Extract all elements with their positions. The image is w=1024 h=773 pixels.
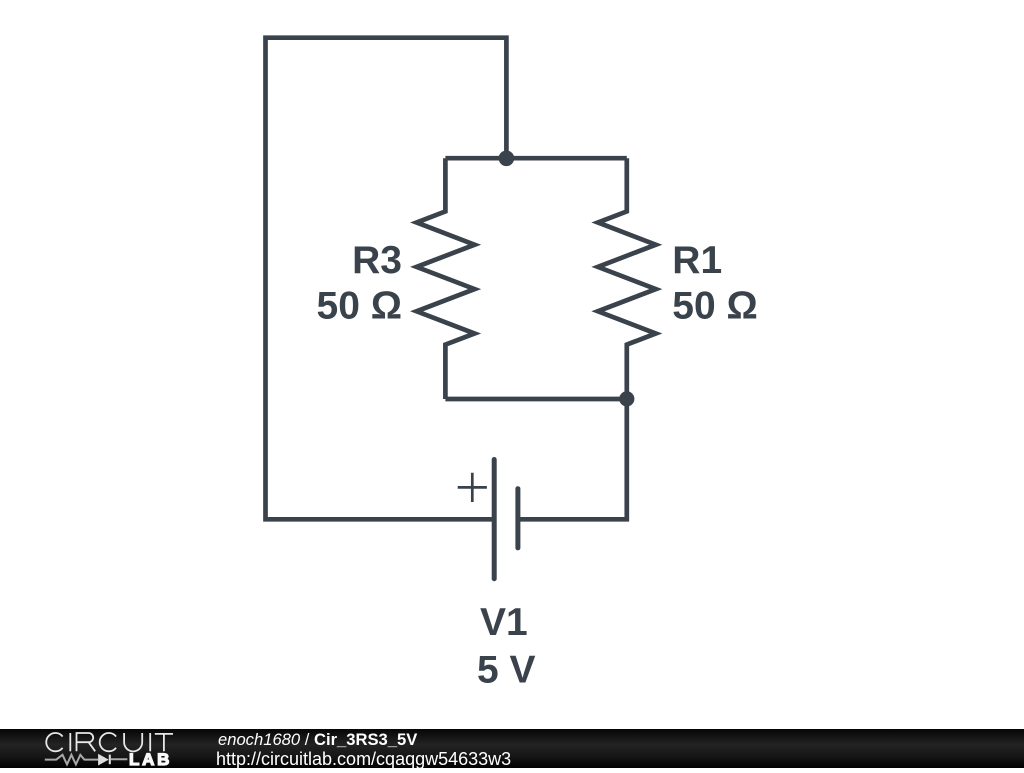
battery plus sign xyxy=(458,473,487,502)
svg-text:R3: R3 xyxy=(352,239,402,282)
svg-text:R1: R1 xyxy=(672,239,722,282)
logo letter U xyxy=(124,733,142,751)
node B (bottom junction) xyxy=(619,391,634,406)
svg-text:V1: V1 xyxy=(480,601,528,644)
logo letter C xyxy=(100,733,116,751)
svg-text:LAB: LAB xyxy=(129,750,172,768)
svg-text:50 Ω: 50 Ω xyxy=(317,284,402,327)
footer line 1: user / circuit name xyxy=(218,730,417,750)
logo letter C xyxy=(46,733,62,751)
node A (top junction) xyxy=(499,151,515,167)
wire bottom rung of parallel resistors xyxy=(445,397,626,402)
CircuitLab logo xyxy=(0,726,200,768)
logo letter I xyxy=(149,733,151,751)
wire right branch: bottom node to battery xyxy=(518,399,627,519)
footer line 2: url xyxy=(216,749,511,770)
resistor R1 xyxy=(598,158,656,399)
battery V1 negative plate xyxy=(515,489,520,548)
logo letter T xyxy=(155,734,173,751)
logo diode triangle xyxy=(98,754,109,766)
logo letter R xyxy=(77,733,96,751)
battery V1 positive plate xyxy=(492,460,497,579)
logo diode bar xyxy=(109,755,111,765)
footer bar xyxy=(0,729,1024,768)
logo letter I xyxy=(69,733,71,751)
svg-text:50 Ω: 50 Ω xyxy=(672,284,757,327)
svg-text:5 V: 5 V xyxy=(477,648,536,691)
wire outer loop (left branch: battery to top node) xyxy=(266,38,507,520)
logo diode lead xyxy=(111,758,128,760)
logo resistor squiggle xyxy=(45,755,98,765)
wire top rung of parallel resistors xyxy=(445,156,626,161)
resistor R3 xyxy=(417,158,475,399)
